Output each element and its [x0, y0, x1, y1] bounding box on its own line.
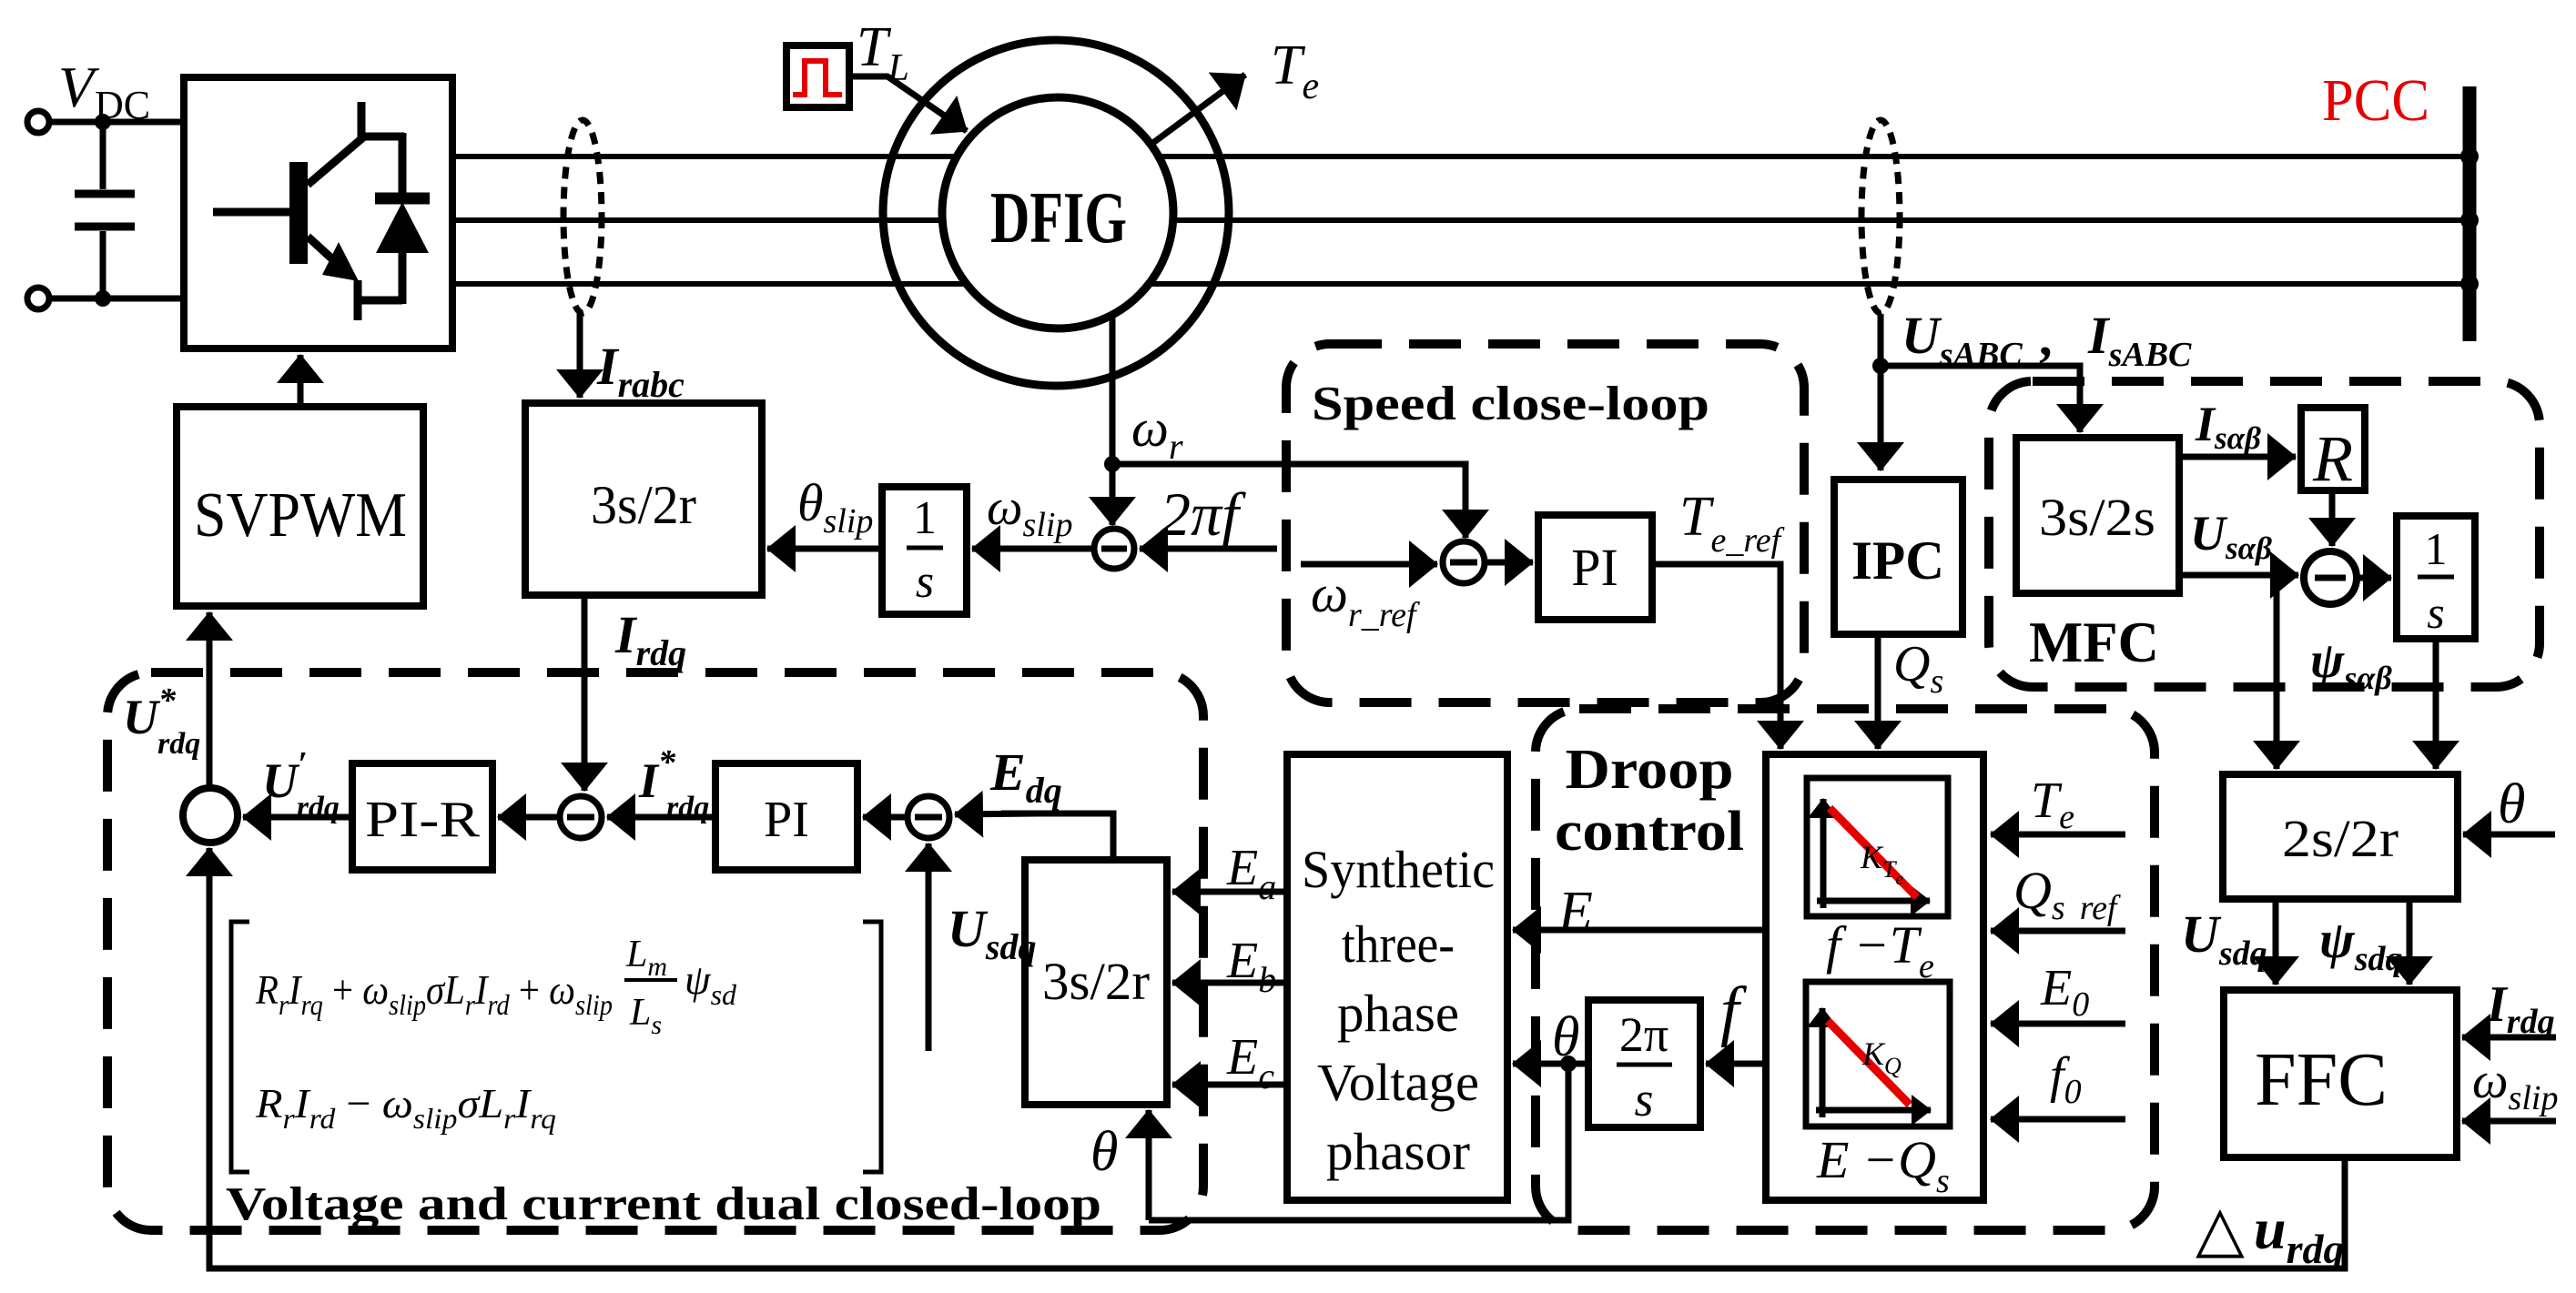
svg-text:2πf: 2πf [1160, 480, 1246, 549]
svg-text:s: s [1634, 1072, 1653, 1126]
svg-text:Speed close-loop: Speed close-loop [1312, 378, 1709, 430]
svg-text:phase: phase [1337, 984, 1459, 1043]
svg-text:PI: PI [764, 792, 809, 848]
svg-text:three-: three- [1342, 914, 1455, 974]
svg-text:1: 1 [913, 492, 937, 544]
svg-text:E: E [1557, 881, 1593, 943]
svg-text:Voltage: Voltage [1317, 1053, 1479, 1112]
svg-text:FFC: FFC [2255, 1037, 2388, 1122]
svg-text:3s/2r: 3s/2r [591, 475, 696, 535]
svg-text:Synthetic: Synthetic [1302, 840, 1495, 899]
svg-text:R: R [2312, 422, 2353, 495]
svg-text:MFC: MFC [2029, 610, 2159, 674]
svg-text:1: 1 [2425, 523, 2448, 574]
svg-text:PI: PI [1571, 538, 1618, 597]
svg-text:2s/2r: 2s/2r [2282, 809, 2399, 868]
svg-text:control: control [1555, 801, 1744, 863]
svg-text:SVPWM: SVPWM [194, 480, 407, 551]
svg-text:PI-R: PI-R [365, 792, 481, 848]
svg-text:s: s [916, 556, 934, 608]
svg-text:θ: θ [1552, 1006, 1579, 1068]
svg-text:IPC: IPC [1851, 530, 1944, 591]
svg-text:θ: θ [2498, 773, 2525, 835]
svg-text:Voltage and current dual close: Voltage and current dual closed-loop [226, 1178, 1101, 1230]
svg-text:s: s [2427, 587, 2444, 638]
svg-text:DC: DC [95, 83, 150, 127]
svg-text:,: , [2039, 308, 2053, 367]
svg-text:phasor: phasor [1326, 1122, 1470, 1181]
svg-text:Droop: Droop [1566, 739, 1734, 801]
svg-text:PCC: PCC [2322, 67, 2429, 134]
svg-text:△: △ [2196, 1195, 2245, 1265]
svg-text:DFIG: DFIG [990, 178, 1127, 258]
svg-text:3s/2r: 3s/2r [1042, 952, 1150, 1011]
svg-text:3s/2s: 3s/2s [2039, 488, 2155, 547]
svg-text:θ: θ [1090, 1121, 1118, 1183]
svg-text:2π: 2π [1619, 1007, 1668, 1062]
